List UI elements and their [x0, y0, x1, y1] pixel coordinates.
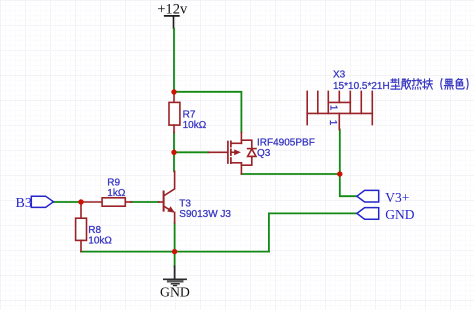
power flag +12v symbol: [165, 16, 179, 29]
ground symbol: [164, 266, 186, 285]
svg-text:GND: GND: [385, 207, 414, 222]
resistor R9: [81, 198, 131, 206]
netflag GND (right): [357, 208, 379, 220]
netflag B3: [31, 196, 53, 207]
svg-text:R9: R9: [107, 178, 120, 189]
MOSFET Q3 (IRF4905PBF): [209, 132, 257, 174]
svg-text:10kΩ: 10kΩ: [88, 236, 112, 247]
svg-text:T3: T3: [179, 199, 191, 210]
junction node E (drain / X3 / V3+): [337, 171, 342, 176]
wire T3 emitter to node D: [174, 223, 176, 252]
wire node A to MOSFET source (top rail): [174, 92, 241, 133]
resistor R8: [76, 202, 87, 252]
junction node A (+12v / R7): [171, 89, 176, 94]
wire Q3 drain to node E: [241, 173, 339, 175]
svg-text:GND: GND: [160, 284, 190, 299]
svg-text:+12v: +12v: [157, 2, 188, 18]
wire bottom GND bus: [81, 251, 269, 253]
svg-text:1kΩ: 1kΩ: [107, 188, 126, 199]
resistor R7: [169, 92, 180, 133]
wire node B to T3 collector: [173, 152, 175, 171]
svg-text:B3: B3: [16, 196, 32, 211]
netflag V3+: [357, 190, 379, 202]
svg-text:R7: R7: [183, 109, 196, 120]
svg-text:X3: X3: [333, 70, 346, 81]
wire R9 to T3 base: [131, 201, 158, 203]
junction node D (emitter / GND bus): [172, 249, 177, 254]
svg-text:1: 1: [327, 120, 338, 126]
svg-text:15*10.5*21H: 15*10.5*21H: [333, 81, 390, 92]
junction node B (R7 / gate / collector): [171, 150, 176, 155]
svg-text:1: 1: [327, 105, 338, 111]
wire node B to Q3 gate: [174, 151, 209, 153]
wire +12v rail to node A: [173, 29, 175, 92]
wire node E to X3 pin: [339, 130, 341, 175]
heatsink X3: [307, 91, 372, 129]
transistor T3 (NPN S9013W): [159, 171, 175, 223]
wire node E to V3+ flag: [340, 174, 357, 196]
svg-text:S9013W J3: S9013W J3: [179, 209, 231, 220]
svg-text:V3+: V3+: [385, 190, 409, 205]
wire R7 bottom to node B: [173, 132, 175, 152]
svg-text:R8: R8: [88, 225, 101, 236]
junction node C (B3 / R9 / R8): [78, 199, 83, 204]
wire GND bus riser to GND flag: [269, 213, 357, 251]
svg-text:IRF4905PBF: IRF4905PBF: [257, 137, 315, 148]
wire node D to ground symbol: [174, 252, 176, 267]
wire B3 flag to node C: [53, 201, 81, 203]
svg-text:Q3: Q3: [257, 148, 271, 159]
svg-text:10kΩ: 10kΩ: [183, 120, 207, 131]
